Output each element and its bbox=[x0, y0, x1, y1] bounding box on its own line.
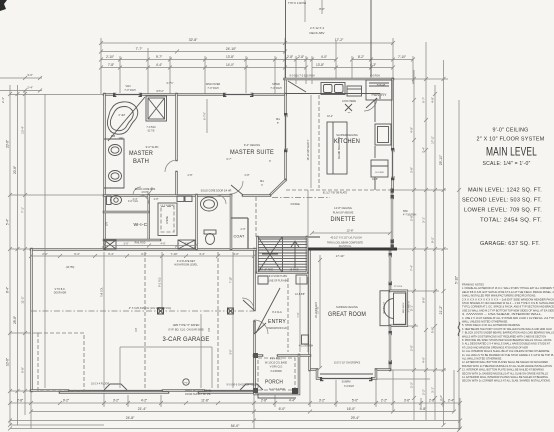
svg-text:8′-4″: 8′-4″ bbox=[6, 286, 10, 293]
svg-text:V-GRV CLG: V-GRV CLG bbox=[270, 367, 283, 369]
svg-text:5′-10″: 5′-10″ bbox=[455, 275, 459, 284]
left extension lines bbox=[10, 95, 104, 426]
svg-text:8′-2″: 8′-2″ bbox=[358, 55, 365, 59]
dinette plate dashed line bbox=[286, 189, 392, 191]
svg-text:BOLTED WITH 2x TREATED MUDSILL: BOLTED WITH 2x TREATED MUDSILLS AT ALL S… bbox=[462, 364, 552, 368]
stair treads right run bbox=[283, 239, 307, 270]
svg-text:MAIN LEVEL: MAIN LEVEL bbox=[486, 145, 537, 159]
svg-text:LOOK HERE: LOOK HERE bbox=[342, 100, 356, 103]
svg-text:WALL UNLESS NOTED OTHERWISE.: WALL UNLESS NOTED OTHERWISE. bbox=[462, 320, 508, 324]
svg-text:7′-10″: 7′-10″ bbox=[230, 277, 233, 283]
powder sink bbox=[201, 197, 218, 211]
svg-text:13′-4″: 13′-4″ bbox=[21, 126, 25, 134]
dinette interior dim line bbox=[312, 232, 390, 234]
svg-text:HIGH ROOM LEVEL: HIGH ROOM LEVEL bbox=[174, 264, 198, 267]
svg-text:8′-0 CLG: 8′-0 CLG bbox=[272, 311, 282, 314]
garage door bump left bbox=[104, 384, 127, 390]
wall: garage top + hall bottom bbox=[31, 248, 257, 251]
top extension lines bbox=[101, 38, 413, 94]
svg-text:ALL WALLS NOTED OTHERWISE.: ALL WALLS NOTED OTHERWISE. bbox=[462, 357, 502, 361]
svg-text:***: *** bbox=[348, 112, 351, 115]
svg-text:40 1/2″ X 9 1/2″ LVL FLUSH: 40 1/2″ X 9 1/2″ LVL FLUSH bbox=[330, 237, 361, 240]
porch step bbox=[258, 394, 296, 398]
dimension row bottom D bbox=[10, 428, 460, 430]
svg-text:3′-2″: 3′-2″ bbox=[439, 395, 443, 401]
svg-text:3′-6″: 3′-6″ bbox=[404, 399, 411, 403]
top-left offset dim lines bbox=[0, 78, 42, 91]
svg-text:3. /\/\/\/\/\/\/\/\ -- USA SHE: 3. /\/\/\/\/\/\/\/\ -- USA SHEAR, INTERI… bbox=[462, 312, 542, 316]
dimension column left A bbox=[9, 85, 11, 425]
svg-text:2′-2″: 2′-2″ bbox=[410, 382, 414, 388]
cook top annotation bbox=[345, 104, 352, 111]
svg-text:2′-0 HRTH: 2′-0 HRTH bbox=[409, 301, 411, 312]
svg-text:10′-2″: 10′-2″ bbox=[327, 115, 333, 118]
master toilet bbox=[107, 196, 112, 205]
svg-text:9′-1 X 8′-0 RGH: 9′-1 X 8′-0 RGH bbox=[269, 389, 285, 391]
svg-text:4′-9″: 4′-9″ bbox=[431, 97, 435, 103]
wall: garage bottom with door openings bbox=[31, 391, 255, 393]
svg-text:54′-0″: 54′-0″ bbox=[231, 424, 240, 428]
great room left wall column + texts bbox=[302, 335, 309, 344]
hall door arcs bbox=[133, 187, 152, 195]
kitchen right counters bbox=[374, 100, 376, 190]
svg-text:6′-8″: 6′-8″ bbox=[21, 367, 25, 373]
svg-text:27′-8 1/4: 27′-8 1/4 bbox=[394, 286, 403, 288]
garage interior dim verticals bbox=[104, 252, 233, 388]
suite interior dim line bbox=[206, 99, 208, 133]
svg-text:DECK ABV: DECK ABV bbox=[309, 31, 324, 35]
svg-text:DOOR SUPPLY W/ 1HL: DOOR SUPPLY W/ 1HL bbox=[185, 393, 211, 396]
entry rail diagonal bbox=[256, 288, 280, 333]
svg-text:STUD SPACED AT 16d CHECKED W N: STUD SPACED AT 16d CHECKED W No.4 -- 1 3… bbox=[462, 301, 554, 305]
svg-text:VAN: VAN bbox=[119, 137, 124, 140]
corner jet tub bbox=[107, 102, 137, 134]
svg-text:SCALE: 1/4″ = 1′-0″: SCALE: 1/4″ = 1′-0″ bbox=[483, 161, 531, 167]
entry front door arc bbox=[254, 320, 268, 334]
fireplace bump-out bbox=[390, 291, 407, 326]
svg-text:4′-9″: 4′-9″ bbox=[410, 127, 414, 133]
svg-text:THRU LOGL BEAM COMPOSITE: THRU LOGL BEAM COMPOSITE bbox=[327, 242, 363, 245]
furnace chase bbox=[158, 203, 177, 236]
svg-text:20′-8″: 20′-8″ bbox=[13, 165, 17, 174]
dimension column right B bbox=[425, 42, 427, 420]
svg-text:20′-8″: 20′-8″ bbox=[6, 139, 10, 148]
dimension row top A (32-8 / 17-2) bbox=[101, 42, 393, 44]
svg-text:5′-8″: 5′-8″ bbox=[431, 327, 435, 333]
dimension column right D bbox=[443, 60, 445, 425]
wall: master suite right bbox=[284, 94, 287, 180]
svg-text:(16,750): (16,750) bbox=[66, 267, 75, 269]
svg-text:4′-4″: 4′-4″ bbox=[289, 399, 296, 403]
stair/dinette divider vertical bbox=[307, 190, 309, 237]
wall: bath/suite divider bbox=[175, 94, 178, 195]
svg-text:16′-10 3/8 VERIFY: 16′-10 3/8 VERIFY bbox=[307, 139, 310, 160]
svg-text:5. STND FIELD 4 OF ALL EXTERIO: 5. STND FIELD 4 OF ALL EXTERIOR FRAMING bbox=[462, 323, 520, 327]
stairwell box bbox=[257, 237, 307, 273]
svg-text:W 5′-0″: W 5′-0″ bbox=[156, 91, 164, 93]
svg-text:9′-7″: 9′-7″ bbox=[156, 55, 163, 59]
svg-text:2′-8″: 2′-8″ bbox=[17, 399, 24, 403]
svg-text:12. EXTERIOR WALL BOTTOM PLATE: 12. EXTERIOR WALL BOTTOM PLATES SHALL BE… bbox=[462, 360, 548, 364]
svg-text:6. NEW BEARS THE POINT COUNT O: 6. NEW BEARS THE POINT COUNT OF WALLED P… bbox=[462, 327, 552, 331]
wall: dinette south over stairs bbox=[257, 236, 320, 238]
svg-text:14′-0″: 14′-0″ bbox=[226, 63, 235, 67]
wall: toilet room / wic right bbox=[147, 195, 150, 240]
dashed ridge line from suite bay bbox=[272, 197, 330, 199]
svg-text:SOLID CORE DRS: SOLID CORE DRS bbox=[135, 188, 156, 191]
porch posts bbox=[253, 353, 258, 358]
kitchen island bbox=[327, 122, 347, 174]
window: great room right bbox=[389, 255, 391, 283]
deck above: right edge bbox=[370, 0, 372, 77]
svg-text:14R UP RISE: 14R UP RISE bbox=[259, 269, 274, 272]
svg-text:32′-8″: 32′-8″ bbox=[189, 38, 198, 42]
svg-text:9′-0″ CEILING: 9′-0″ CEILING bbox=[493, 128, 529, 134]
garage door bump right bbox=[240, 384, 263, 390]
svg-text:2′-6″: 2′-6″ bbox=[185, 243, 190, 246]
svg-text:11. ALL WALLS TO BE FRAMED ON: 11. ALL WALLS TO BE FRAMED ON THE STUD G… bbox=[462, 353, 554, 357]
dimension row bottom B bbox=[31, 411, 454, 413]
svg-text:7′-4″: 7′-4″ bbox=[410, 265, 414, 271]
svg-text:6′-4″: 6′-4″ bbox=[74, 252, 80, 256]
garage bay thin rect bbox=[120, 347, 212, 388]
garage beam columns bbox=[158, 308, 164, 314]
kitchen interior dim line bbox=[310, 95, 312, 188]
svg-text:6′-7½″: 6′-7½″ bbox=[203, 112, 207, 120]
wall: kitchen right bbox=[391, 79, 394, 190]
wall: master block top bbox=[104, 93, 286, 96]
svg-text:8′-2″: 8′-2″ bbox=[431, 237, 435, 243]
kitchen corner diagonal bbox=[288, 81, 306, 92]
svg-text:7′-10″: 7′-10″ bbox=[398, 55, 407, 59]
svg-text:3′-1″: 3′-1″ bbox=[422, 217, 426, 223]
svg-text:6′-7″: 6′-7″ bbox=[422, 97, 426, 103]
svg-text:7′-0″ RGH: 7′-0″ RGH bbox=[207, 87, 218, 90]
svg-text:4″ X 3.25 3/16 LVL (LVL GIRDER: 4″ X 3.25 3/16 LVL (LVL GIRDER LVL) bbox=[129, 307, 172, 310]
window: bay bottom bbox=[322, 377, 371, 379]
kitchen counter top edge bbox=[286, 94, 380, 100]
svg-text:2′-10″: 2′-10″ bbox=[106, 55, 115, 59]
svg-text:MASTER SUITE: MASTER SUITE bbox=[230, 149, 274, 156]
svg-text:4′ RIDGE: 4′ RIDGE bbox=[290, 204, 300, 206]
svg-text:SLOPED CEILING: SLOPED CEILING bbox=[336, 133, 358, 137]
svg-text:7′-7″: 7′-7″ bbox=[136, 47, 144, 51]
svg-text:GREAT ROOM: GREAT ROOM bbox=[328, 311, 366, 318]
svg-text:VAN: VAN bbox=[126, 85, 131, 88]
svg-text:24′-8″: 24′-8″ bbox=[126, 416, 135, 420]
svg-text:FRAMING NOTES: FRAMING NOTES bbox=[462, 283, 484, 287]
svg-text:81 1/2″ T/B T/B PLATE: 81 1/2″ T/B T/B PLATE bbox=[323, 192, 348, 195]
dimension row top D bbox=[101, 67, 393, 69]
svg-text:SECOND LEVEL: 503 SQ. FT.: SECOND LEVEL: 503 SQ. FT. bbox=[462, 198, 542, 204]
dashed line below suite bbox=[255, 197, 257, 237]
svg-text:W/ 12X12 COL BASE: W/ 12X12 COL BASE bbox=[265, 362, 288, 365]
svg-text:3/4 HR: 3/4 HR bbox=[141, 192, 148, 194]
wic door arc bbox=[140, 195, 149, 204]
svg-text:2′-8″: 2′-8″ bbox=[154, 198, 159, 201]
svg-text:5′-4″: 5′-4″ bbox=[6, 218, 10, 225]
bath vanity counter bbox=[104, 139, 124, 188]
svg-text:LINE OF FLR ABV: LINE OF FLR ABV bbox=[268, 280, 288, 283]
svg-text:10-2 X 4 FLOOR: 10-2 X 4 FLOOR bbox=[91, 383, 109, 386]
window: master top wall 1 bbox=[115, 93, 140, 95]
wall: dinette right (window wall) bbox=[391, 190, 394, 248]
svg-text:PANTRY: PANTRY bbox=[372, 93, 388, 97]
svg-text:W/B: W/B bbox=[111, 136, 116, 138]
svg-text:2″ X 10″ FLOOR SYSTEM: 2″ X 10″ FLOOR SYSTEM bbox=[477, 137, 545, 143]
svg-text:PORCH: PORCH bbox=[265, 380, 283, 386]
dimension column left C bbox=[24, 90, 26, 415]
svg-text:2′-8″: 2′-8″ bbox=[287, 55, 294, 59]
svg-text:9′-1 R.O.: 9′-1 R.O. bbox=[159, 277, 162, 287]
svg-text:6′-4″: 6′-4″ bbox=[108, 252, 114, 256]
beam: flush LVL over great room bbox=[307, 248, 397, 251]
svg-text:FLUSH LVL: FLUSH LVL bbox=[339, 245, 352, 248]
svg-text:2′-2″: 2′-2″ bbox=[422, 389, 426, 395]
wall: great room right upper bbox=[389, 249, 392, 291]
svg-text:SHWR: SHWR bbox=[272, 83, 280, 86]
svg-text:LOWER LEVEL: 709 SQ. FT.: LOWER LEVEL: 709 SQ. FT. bbox=[464, 208, 542, 214]
svg-text:3′-1″: 3′-1″ bbox=[431, 387, 435, 393]
svg-text:11′-2″: 11′-2″ bbox=[21, 296, 25, 303]
svg-text:9′-8″: 9′-8″ bbox=[422, 297, 426, 303]
wall: master suite bay diagonal right bbox=[270, 180, 286, 195]
svg-text:FD: FD bbox=[185, 383, 188, 385]
svg-text:10. ALL INTERIOR WALLS SHALL B: 10. ALL INTERIOR WALLS SHALL BE AT 16d U… bbox=[462, 349, 550, 353]
dimension row top C bbox=[101, 59, 413, 61]
svg-text:2′-0″: 2′-0″ bbox=[241, 228, 246, 231]
svg-text:GYP. BD. CLG. ON GAR SIDE: GYP. BD. CLG. ON GAR SIDE bbox=[168, 328, 204, 332]
svg-text:USE 16 WALL AND M 2 TYP BOTTOM: USE 16 WALL AND M 2 TYP BOTTOM TOP NEW S… bbox=[462, 308, 554, 312]
section squiggle right bbox=[458, 322, 460, 336]
entry interior dim lines bbox=[300, 277, 308, 352]
svg-text:9. ALL DESIGNATED 2 X 4 WALLS: 9. ALL DESIGNATED 2 X 4 WALLS SHALL HAVE… bbox=[462, 342, 550, 346]
tub platform diagonal bbox=[108, 97, 145, 141]
svg-text:CHASE: CHASE bbox=[166, 216, 169, 224]
under-stair storage boxes bbox=[296, 275, 307, 284]
refrigerator bbox=[375, 124, 391, 145]
svg-text:PLAN OF ABOVE: PLAN OF ABOVE bbox=[333, 211, 354, 215]
svg-text:SEE ELEV: SEE ELEV bbox=[403, 302, 405, 313]
svg-text:5/16x45: 5/16x45 bbox=[377, 84, 386, 87]
svg-text:9′-0 X 8′-0 OH DOOR - DBL FL: 9′-0 X 8′-0 OH DOOR - DBL FL bbox=[227, 384, 261, 387]
wall: great room left bbox=[308, 249, 311, 370]
stair up arrow bbox=[291, 241, 299, 268]
svg-text:RAIL ROD: RAIL ROD bbox=[135, 242, 146, 245]
svg-text:7. BLOCK JOISTS UNDER BEARS, B: 7. BLOCK JOISTS UNDER BEARS, BARRICATION… bbox=[462, 331, 554, 335]
dimension column right C bbox=[434, 85, 436, 420]
svg-text:BATH: BATH bbox=[133, 158, 149, 165]
svg-text:12′-8″: 12′-8″ bbox=[346, 229, 353, 233]
wall: great room bottom bbox=[310, 368, 390, 371]
svg-text:3′-0″: 3′-0″ bbox=[230, 349, 233, 354]
svg-text:2′-8″: 2′-8″ bbox=[245, 174, 250, 177]
garage service door arc bbox=[242, 298, 254, 310]
svg-text:21′-2″: 21′-2″ bbox=[439, 305, 443, 314]
svg-text:42″ DV FP: 42″ DV FP bbox=[383, 302, 386, 314]
garage slab joint dashes bbox=[145, 252, 218, 388]
svg-text:6′-7½″: 6′-7½″ bbox=[166, 81, 173, 85]
svg-text:2′-8″: 2′-8″ bbox=[261, 399, 268, 403]
svg-text:3′-2″: 3′-2″ bbox=[319, 399, 326, 403]
svg-text:3-CAR GARAGE: 3-CAR GARAGE bbox=[163, 336, 210, 343]
svg-text:28′-8″: 28′-8″ bbox=[13, 315, 17, 324]
svg-text:MAIN LEVEL: 1242 SQ. FT.: MAIN LEVEL: 1242 SQ. FT. bbox=[468, 188, 542, 194]
svg-text:6′-2″: 6′-2″ bbox=[141, 252, 147, 256]
svg-text:3′-0 RGH: 3′-0 RGH bbox=[344, 385, 354, 388]
svg-text:MASTER: MASTER bbox=[129, 150, 153, 157]
svg-text:4 X 4 POST: 4 X 4 POST bbox=[270, 359, 283, 361]
svg-text:HELD 5/8 O.S.B. EXT SHTHG W 8d: HELD 5/8 O.S.B. EXT SHTHG W 8d AT 6-12 A… bbox=[462, 290, 554, 294]
window: suite right wall bbox=[284, 115, 286, 150]
svg-text:2 X 2 FURRED: 2 X 2 FURRED bbox=[160, 205, 175, 207]
svg-text:HARDWOOD FLR: HARDWOOD FLR bbox=[267, 327, 287, 330]
svg-text:2′-8″: 2′-8″ bbox=[298, 55, 305, 59]
hall band dim line bbox=[104, 245, 196, 247]
svg-text:14′-8 5/8″: 14′-8 5/8″ bbox=[295, 293, 305, 296]
svg-text:10′-8″: 10′-8″ bbox=[6, 357, 10, 366]
dimension column left B bbox=[17, 85, 19, 425]
svg-text:2′-2″: 2′-2″ bbox=[381, 399, 388, 403]
extra right ticks bbox=[412, 98, 416, 400]
svg-text:6′-0″: 6′-0″ bbox=[279, 407, 287, 411]
svg-text:4. USE 2 X 10 AT GRADE AT ALL: 4. USE 2 X 10 AT GRADE AT ALL SYSTEM AND… bbox=[462, 316, 554, 320]
svg-text:SECON WITH 2x SANDED MUDSILLS: SECON WITH 2x SANDED MUDSILLS AT ALL SLA… bbox=[462, 371, 548, 375]
svg-text:50W: 50W bbox=[403, 211, 409, 213]
svg-text:LWR TYPE ″X″ RATED: LWR TYPE ″X″ RATED bbox=[173, 323, 200, 327]
wall: coat right bbox=[231, 218, 248, 249]
hall cabinets bbox=[177, 196, 184, 202]
svg-text:2′-4″: 2′-4″ bbox=[1, 97, 5, 103]
svg-text:21′-4″: 21′-4″ bbox=[138, 407, 147, 411]
svg-text:9′ TO B.O.: 9′ TO B.O. bbox=[55, 289, 66, 291]
svg-text:17′-2″: 17′-2″ bbox=[431, 136, 435, 144]
kitchen range bbox=[347, 86, 362, 96]
svg-text:8. PROVIDE MIL SPEC STUDS PER: 8. PROVIDE MIL SPEC STUDS PER SOLID BEAR… bbox=[462, 338, 552, 342]
wall: bath block left bbox=[103, 94, 106, 249]
svg-text:14. EXTERIOR WALL INTERIOR PLA: 14. EXTERIOR WALL INTERIOR PLATES SHALL … bbox=[462, 375, 548, 379]
svg-text:Rim: Rim bbox=[276, 119, 280, 121]
svg-text:AT LOAD AND WINDOW OPENINGS AT: AT LOAD AND WINDOW OPENINGS AT EA END OF… bbox=[462, 345, 528, 349]
svg-text:9′-0 5/16 7′-0 5/16 RGH: 9′-0 5/16 7′-0 5/16 RGH bbox=[289, 75, 314, 78]
svg-text:SECON WITH 2x CORNER WALLS AT: SECON WITH 2x CORNER WALLS AT ALL SLAB. … bbox=[462, 379, 550, 383]
svg-text:B OVEN: B OVEN bbox=[375, 172, 384, 174]
svg-text:7′-0″ RGH: 7′-0″ RGH bbox=[124, 89, 135, 92]
porch outline bbox=[255, 355, 300, 394]
svg-text:SUNKEN CEILING: SUNKEN CEILING bbox=[336, 305, 358, 309]
porch inner dashed bbox=[258, 358, 295, 390]
svg-text:DINETTE: DINETTE bbox=[331, 216, 356, 223]
suite door arc bbox=[230, 181, 243, 194]
svg-text:9′-4″ CEILING: 9′-4″ CEILING bbox=[244, 143, 260, 147]
svg-text:KITCHEN: KITCHEN bbox=[334, 138, 360, 145]
svg-text:DOOR HDR: DOOR HDR bbox=[54, 293, 67, 295]
svg-text:TYP·K 4 ROW: TYP·K 4 ROW bbox=[288, 1, 307, 5]
svg-text:2′-4″: 2′-4″ bbox=[27, 86, 33, 90]
pantry bbox=[366, 80, 392, 100]
dimension row top B (24-10) bbox=[101, 51, 285, 53]
bath sink 2 bbox=[109, 171, 122, 182]
svg-text:10.5′ 5′ 10″ OH DRSPKS: 10.5′ 5′ 10″ OH DRSPKS bbox=[334, 362, 361, 365]
great room interior dim line bbox=[319, 255, 321, 368]
svg-text:TOTAL: 2454 SQ. FT.: TOTAL: 2454 SQ. FT. bbox=[480, 218, 542, 224]
garage dim row under top wall bbox=[31, 255, 254, 257]
svg-text:9′-0″ SLPD: 9′-0″ SLPD bbox=[146, 145, 159, 149]
deck above: left edge bbox=[285, 0, 287, 79]
dimension column right A bbox=[413, 70, 415, 420]
svg-text:6′ JET: 6′ JET bbox=[119, 114, 126, 117]
svg-text:COAT: COAT bbox=[234, 235, 245, 239]
svg-text:15 RISE: 15 RISE bbox=[290, 269, 299, 272]
stair divider bbox=[282, 237, 284, 272]
powder toilet bbox=[204, 230, 216, 234]
svg-text:10′-8″: 10′-8″ bbox=[372, 178, 378, 181]
svg-text:6′-8 SOFFIT ABV: 6′-8 SOFFIT ABV bbox=[269, 275, 288, 278]
powder door arc bbox=[217, 195, 226, 204]
svg-text:4′-6″: 4′-6″ bbox=[161, 243, 166, 246]
wall oven bbox=[371, 160, 388, 177]
svg-text:24′-10″: 24′-10″ bbox=[226, 47, 237, 51]
svg-text:4′-0 RGH: 4′-0 RGH bbox=[370, 75, 380, 78]
wall: powder left bbox=[195, 195, 198, 249]
wall: garage left bbox=[30, 249, 33, 391]
svg-text:W-I-C: W-I-C bbox=[134, 222, 149, 227]
svg-text:4′-11 5/8 RGH: 4′-11 5/8 RGH bbox=[299, 346, 314, 348]
wall: kitchen jog vertical bbox=[284, 79, 287, 95]
svg-text:7′-4″: 7′-4″ bbox=[422, 147, 426, 153]
svg-text:8′-0″: 8′-0″ bbox=[319, 7, 325, 11]
svg-text:16′-0″: 16′-0″ bbox=[347, 407, 356, 411]
svg-text:GARAGE: 637 SQ. FT.: GARAGE: 637 SQ. FT. bbox=[480, 241, 540, 247]
svg-text:13. INTERIOR WALL BOTTOM PLATE: 13. INTERIOR WALL BOTTOM PLATE SHALL BE … bbox=[462, 368, 544, 372]
bath sink 1 bbox=[109, 145, 122, 156]
wall: garage right / entry left bbox=[253, 249, 256, 391]
hall interior dim line bbox=[44, 94, 46, 388]
svg-text:3′-8″: 3′-8″ bbox=[410, 167, 414, 173]
svg-text:12′-8″ CEILING: 12′-8″ CEILING bbox=[334, 206, 352, 210]
bottom extension lines bbox=[31, 370, 460, 429]
svg-text:7′-1″: 7′-1″ bbox=[21, 207, 25, 213]
svg-text:SOLID CORE DOOR 3/4 HR: SOLID CORE DOOR 3/4 HR bbox=[201, 190, 232, 193]
svg-text:SHALL INSTALLED PER MANUFACTUR: SHALL INSTALLED PER MANUFACTURERS SPECIF… bbox=[462, 294, 536, 298]
garage floor drain bbox=[183, 379, 189, 385]
furnace box with X bbox=[178, 240, 195, 249]
svg-text:4′-4″: 4′-4″ bbox=[156, 63, 163, 67]
svg-text:3′-4″: 3′-4″ bbox=[199, 252, 205, 256]
svg-text:SUNRM: SUNRM bbox=[342, 381, 351, 384]
bay window bump: great room bottom bbox=[317, 370, 376, 379]
svg-text:5″: 5″ bbox=[277, 123, 279, 125]
pantry door arc bbox=[364, 98, 377, 111]
svg-text:11′-8″: 11′-8″ bbox=[201, 399, 210, 403]
garage dashed slab rect bbox=[38, 333, 84, 391]
window: kitchen right wall bbox=[391, 150, 393, 178]
window: great room right lower bbox=[389, 333, 391, 362]
svg-text:4′-7 5/8 RGH: 4′-7 5/8 RGH bbox=[403, 215, 417, 217]
svg-text:7′-1″: 7′-1″ bbox=[296, 312, 300, 317]
svg-text:7′-0″ RGH: 7′-0″ RGH bbox=[270, 87, 281, 90]
wall: powder right / coat left bbox=[230, 195, 233, 249]
svg-text:ENTRY: ENTRY bbox=[268, 319, 286, 325]
wall: wic bottom bbox=[104, 239, 160, 242]
wall: kitchen top bbox=[285, 78, 394, 81]
svg-text:TYPCL CORNER AT 1 OC. SPACE &: TYPCL CORNER AT 1 OC. SPACE & FACIA. AND… bbox=[462, 305, 554, 309]
svg-text:17′-10″: 17′-10″ bbox=[336, 254, 345, 258]
entry line of floor above dashed bbox=[287, 278, 289, 352]
wall: entry bottom / porch top bbox=[254, 354, 310, 357]
svg-text:9′-2″: 9′-2″ bbox=[63, 399, 70, 403]
svg-text:3′-0″: 3′-0″ bbox=[27, 73, 33, 77]
